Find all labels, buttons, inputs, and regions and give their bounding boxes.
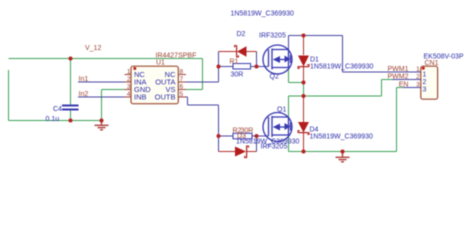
- svg-text:0.1u: 0.1u: [46, 116, 60, 123]
- svg-text:D1: D1: [310, 57, 319, 64]
- svg-text:V_12: V_12: [85, 45, 101, 52]
- svg-text:D4: D4: [310, 127, 319, 134]
- svg-text:R1: R1: [230, 59, 239, 66]
- svg-text:1N5819W_C369930: 1N5819W_C369930: [310, 134, 374, 141]
- svg-text:2: 2: [127, 76, 131, 83]
- svg-text:8: 8: [180, 69, 184, 76]
- svg-text:In2: In2: [79, 91, 89, 98]
- svg-text:PWM1: PWM1: [388, 66, 409, 73]
- svg-text:1: 1: [127, 69, 131, 76]
- svg-text:1: 1: [416, 66, 420, 73]
- svg-text:IRF3205: IRF3205: [259, 33, 286, 40]
- svg-text:Q2: Q2: [270, 74, 279, 81]
- svg-text:2: 2: [416, 74, 420, 81]
- svg-text:In1: In1: [79, 76, 89, 83]
- svg-text:1N5819W_C369930: 1N5819W_C369930: [310, 64, 374, 71]
- svg-text:7: 7: [180, 76, 184, 83]
- svg-text:C4: C4: [53, 106, 62, 113]
- svg-text:U1: U1: [156, 60, 165, 67]
- svg-text:PWM2: PWM2: [388, 74, 409, 81]
- svg-text:2: 2: [423, 79, 427, 86]
- svg-text:OUTB: OUTB: [155, 93, 176, 102]
- svg-text:3: 3: [416, 82, 420, 89]
- svg-text:1N5819W_C369930: 1N5819W_C369930: [231, 11, 295, 18]
- svg-text:6: 6: [180, 84, 184, 91]
- svg-text:IR4427SPBF: IR4427SPBF: [156, 53, 197, 60]
- svg-text:4: 4: [127, 91, 131, 98]
- svg-text:EN: EN: [399, 82, 409, 89]
- svg-text:30R: 30R: [231, 72, 244, 79]
- svg-text:INB: INB: [134, 93, 147, 102]
- svg-text:3: 3: [423, 87, 427, 94]
- svg-text:IRF3205: IRF3205: [261, 144, 288, 151]
- svg-text:CN1: CN1: [425, 60, 439, 67]
- svg-text:D2: D2: [237, 31, 246, 38]
- svg-text:Q1: Q1: [277, 107, 286, 114]
- svg-text:5: 5: [180, 91, 184, 98]
- svg-text:1: 1: [423, 72, 427, 79]
- svg-text:3: 3: [127, 84, 131, 91]
